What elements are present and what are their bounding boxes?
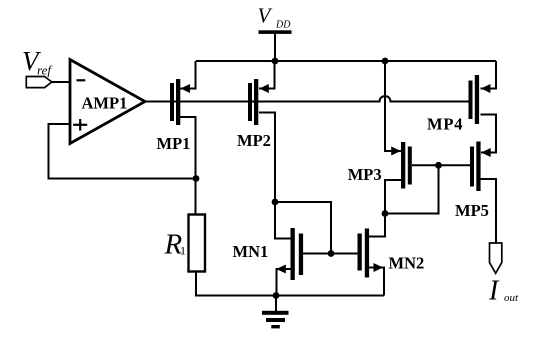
svg-text:MP2: MP2 [237, 131, 271, 150]
svg-text:V: V [258, 4, 273, 28]
svg-text:MN2: MN2 [389, 254, 425, 273]
svg-text:out: out [504, 292, 519, 304]
svg-text:MP4: MP4 [427, 115, 463, 134]
svg-text:DD: DD [275, 20, 291, 31]
svg-text:ref: ref [37, 63, 53, 78]
svg-text:MP1: MP1 [157, 134, 191, 153]
svg-text:I: I [488, 276, 500, 307]
svg-text:MP3: MP3 [348, 165, 382, 184]
svg-text:AMP1: AMP1 [82, 94, 128, 113]
svg-text:MN1: MN1 [233, 242, 269, 261]
svg-text:MP5: MP5 [455, 201, 489, 220]
svg-text:1: 1 [180, 244, 186, 258]
